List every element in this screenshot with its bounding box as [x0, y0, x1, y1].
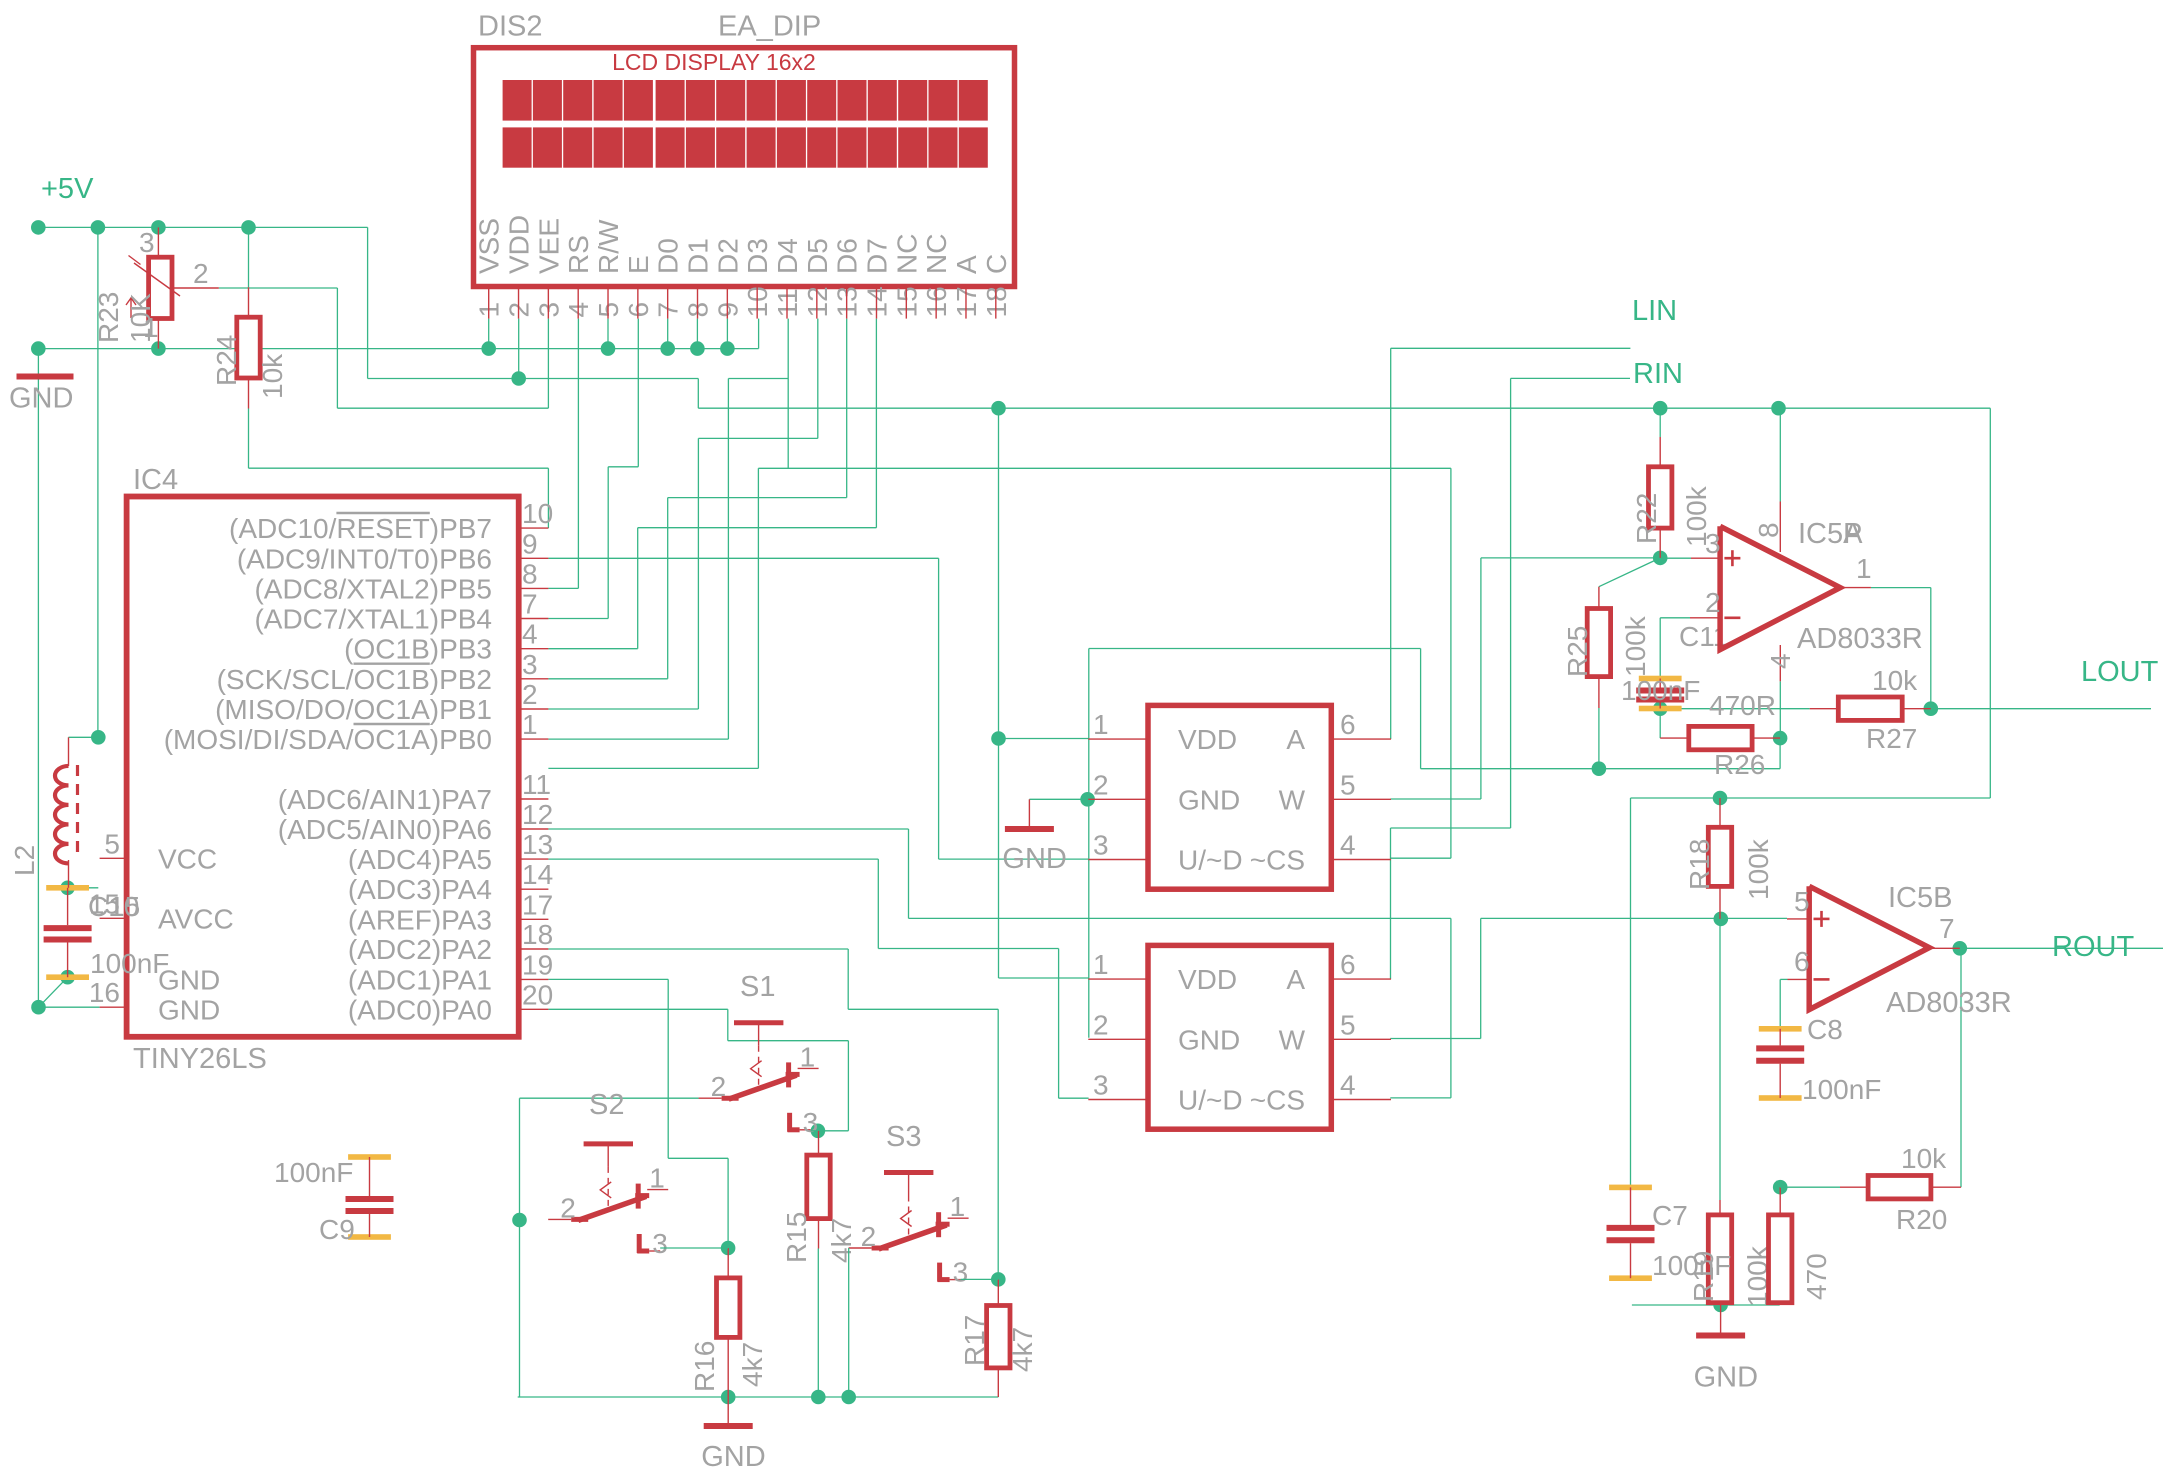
svg-text:1: 1 [143, 312, 159, 343]
svg-text:EA_DIP: EA_DIP [718, 11, 821, 43]
svg-text:LOUT: LOUT [2081, 656, 2159, 688]
svg-text:R/W: R/W [593, 219, 624, 274]
svg-text:VDD: VDD [1178, 964, 1237, 995]
svg-text:L2: L2 [9, 845, 40, 876]
svg-text:3: 3 [1705, 528, 1721, 559]
svg-text:(ADC9/INT0/T0)PB6: (ADC9/INT0/T0)PB6 [237, 543, 492, 574]
svg-text:GND: GND [158, 994, 220, 1025]
svg-text:3: 3 [652, 1228, 668, 1259]
svg-text:R25: R25 [1562, 626, 1593, 677]
svg-text:4k7: 4k7 [737, 1342, 768, 1387]
svg-text:C8: C8 [1807, 1014, 1843, 1045]
svg-text:18: 18 [522, 919, 553, 950]
svg-text:10k: 10k [257, 353, 288, 399]
svg-text:R22: R22 [1631, 493, 1662, 544]
svg-text:R23: R23 [93, 292, 124, 343]
svg-text:VSS: VSS [474, 218, 505, 274]
svg-text:(ADC2)PA2: (ADC2)PA2 [348, 934, 492, 965]
svg-text:9: 9 [522, 528, 538, 559]
svg-text:AD8033R: AD8033R [1886, 987, 2012, 1019]
svg-text:D3: D3 [742, 238, 773, 274]
svg-text:17: 17 [522, 889, 553, 920]
svg-text:470: 470 [1801, 1253, 1832, 1300]
svg-text:RIN: RIN [1633, 358, 1683, 390]
svg-text:6: 6 [1340, 709, 1356, 740]
svg-text:D6: D6 [832, 238, 863, 274]
svg-text:11: 11 [522, 769, 551, 800]
svg-text:R27: R27 [1866, 723, 1917, 754]
svg-text:S2: S2 [589, 1089, 624, 1121]
svg-text:C7: C7 [1652, 1200, 1688, 1231]
svg-text:R16: R16 [689, 1341, 720, 1392]
svg-text:ROUT: ROUT [2052, 931, 2134, 963]
svg-text:1: 1 [1856, 553, 1872, 584]
svg-text:(ADC4)PA5: (ADC4)PA5 [348, 844, 492, 875]
svg-text:A: A [1286, 964, 1305, 995]
svg-text:6: 6 [1794, 946, 1810, 977]
svg-text:470R: 470R [1709, 690, 1776, 721]
svg-text:(ADC7/XTAL1)PB4: (ADC7/XTAL1)PB4 [254, 604, 492, 635]
svg-text:A: A [951, 255, 982, 274]
svg-text:5: 5 [1340, 769, 1356, 800]
svg-text:19: 19 [522, 949, 553, 980]
svg-text:(MOSI/DI/SDA/OC1A)PB0: (MOSI/DI/SDA/OC1A)PB0 [164, 724, 492, 755]
svg-text:NC: NC [921, 234, 952, 274]
svg-text:2: 2 [861, 1221, 877, 1252]
svg-text:4k7: 4k7 [1007, 1327, 1038, 1372]
svg-text:E: E [623, 255, 654, 274]
svg-text:VCC: VCC [158, 843, 217, 874]
svg-text:3: 3 [522, 649, 538, 680]
svg-text:100nF: 100nF [1621, 675, 1700, 706]
svg-text:VEE: VEE [533, 218, 564, 274]
svg-text:7: 7 [1939, 913, 1955, 944]
svg-text:3: 3 [1093, 830, 1109, 861]
svg-text:1: 1 [950, 1191, 966, 1222]
svg-text:15: 15 [109, 891, 140, 922]
svg-text:D5: D5 [802, 238, 833, 274]
svg-text:~CS: ~CS [1250, 1085, 1305, 1116]
svg-text:U/~D: U/~D [1178, 845, 1243, 876]
svg-text:GND: GND [701, 1441, 765, 1468]
svg-text:8: 8 [522, 558, 538, 589]
svg-text:6: 6 [1340, 949, 1356, 980]
svg-text:R20: R20 [1896, 1204, 1947, 1235]
svg-text:D2: D2 [712, 238, 743, 274]
svg-text:P: P [1843, 518, 1862, 550]
svg-text:14: 14 [522, 859, 553, 890]
svg-text:IC5B: IC5B [1888, 882, 1952, 914]
svg-text:R24: R24 [211, 335, 242, 386]
svg-text:5: 5 [1794, 886, 1810, 917]
svg-text:D4: D4 [772, 238, 803, 274]
svg-text:10k: 10k [1901, 1143, 1947, 1174]
svg-text:3: 3 [953, 1257, 969, 1288]
svg-text:1: 1 [1093, 949, 1109, 980]
svg-text:VDD: VDD [504, 215, 535, 274]
svg-text:100k: 100k [1620, 615, 1651, 677]
svg-text:16: 16 [89, 977, 120, 1008]
svg-text:(ADC10/RESET)PB7: (ADC10/RESET)PB7 [229, 513, 492, 544]
svg-text:C: C [981, 254, 1012, 274]
svg-text:5: 5 [104, 828, 120, 859]
svg-text:(AREF)PA3: (AREF)PA3 [348, 904, 492, 935]
svg-text:R15: R15 [781, 1212, 812, 1263]
svg-text:D7: D7 [861, 238, 892, 274]
svg-text:2: 2 [711, 1071, 727, 1102]
svg-text:4k7: 4k7 [826, 1218, 857, 1263]
svg-text:S3: S3 [886, 1121, 921, 1153]
svg-text:(OC1B)PB3: (OC1B)PB3 [344, 634, 492, 665]
svg-text:R18: R18 [1684, 839, 1715, 890]
svg-text:4: 4 [522, 619, 538, 650]
svg-text:2: 2 [193, 258, 209, 289]
svg-text:D1: D1 [683, 238, 714, 274]
svg-text:C9: C9 [319, 1214, 355, 1245]
svg-text:(ADC1)PA1: (ADC1)PA1 [348, 964, 492, 995]
svg-text:1: 1 [649, 1163, 665, 1194]
svg-text:10k: 10k [1872, 665, 1918, 696]
svg-text:GND: GND [1178, 784, 1240, 815]
svg-text:+5V: +5V [41, 173, 94, 205]
svg-text:(ADC8/XTAL2)PB5: (ADC8/XTAL2)PB5 [254, 573, 492, 604]
svg-text:(ADC6/AIN1)PA7: (ADC6/AIN1)PA7 [278, 784, 492, 815]
svg-text:W: W [1279, 784, 1306, 815]
svg-text:GND: GND [9, 383, 73, 415]
svg-text:GND: GND [1178, 1024, 1240, 1055]
svg-text:R26: R26 [1714, 749, 1765, 780]
svg-text:1: 1 [1093, 709, 1109, 740]
svg-text:100k: 100k [1743, 838, 1774, 900]
svg-text:LIN: LIN [1632, 295, 1677, 327]
svg-text:7: 7 [522, 589, 538, 620]
svg-text:(ADC5/AIN0)PA6: (ADC5/AIN0)PA6 [278, 814, 492, 845]
svg-text:4: 4 [1340, 830, 1356, 861]
svg-text:W: W [1279, 1024, 1306, 1055]
svg-text:AD8033R: AD8033R [1797, 623, 1923, 655]
svg-text:A: A [1286, 724, 1305, 755]
svg-text:1: 1 [522, 709, 538, 740]
svg-text:R17: R17 [959, 1315, 990, 1366]
svg-text:100nF: 100nF [274, 1157, 353, 1188]
svg-text:4: 4 [1765, 653, 1796, 669]
svg-text:S1: S1 [740, 971, 775, 1003]
svg-text:100nF: 100nF [1802, 1074, 1881, 1105]
svg-text:AVCC: AVCC [158, 903, 234, 934]
svg-text:(MISO/DO/OC1A)PB1: (MISO/DO/OC1A)PB1 [215, 694, 492, 725]
svg-text:(SCK/SCL/OC1B)PB2: (SCK/SCL/OC1B)PB2 [217, 664, 492, 695]
svg-text:NC: NC [891, 234, 922, 274]
svg-text:U/~D: U/~D [1178, 1085, 1243, 1116]
svg-text:(ADC0)PA0: (ADC0)PA0 [348, 994, 492, 1025]
svg-text:2: 2 [1705, 587, 1721, 618]
svg-text:3: 3 [1093, 1070, 1109, 1101]
svg-text:5: 5 [1340, 1009, 1356, 1040]
svg-text:TINY26LS: TINY26LS [133, 1043, 267, 1075]
svg-text:3: 3 [803, 1107, 819, 1138]
svg-text:~CS: ~CS [1250, 845, 1305, 876]
svg-text:12: 12 [522, 799, 553, 830]
svg-text:RS: RS [563, 235, 594, 274]
svg-text:1: 1 [800, 1041, 816, 1072]
svg-text:2: 2 [1093, 769, 1109, 800]
svg-text:8: 8 [1753, 522, 1784, 538]
svg-text:D0: D0 [653, 238, 684, 274]
svg-text:2: 2 [1093, 1009, 1109, 1040]
svg-text:2: 2 [522, 679, 538, 710]
svg-text:20: 20 [522, 979, 553, 1010]
svg-text:2: 2 [560, 1192, 576, 1223]
svg-text:100nF: 100nF [90, 948, 169, 979]
svg-text:4: 4 [1340, 1070, 1356, 1101]
svg-text:DIS2: DIS2 [478, 11, 542, 43]
svg-text:GND: GND [1002, 843, 1066, 875]
svg-text:GND: GND [1694, 1362, 1758, 1394]
svg-text:LCD DISPLAY 16x2: LCD DISPLAY 16x2 [612, 49, 816, 75]
svg-text:IC4: IC4 [133, 464, 178, 496]
svg-text:3: 3 [139, 227, 155, 258]
svg-text:10: 10 [522, 498, 553, 529]
svg-text:(ADC3)PA4: (ADC3)PA4 [348, 874, 492, 905]
svg-text:13: 13 [522, 829, 553, 860]
svg-text:VDD: VDD [1178, 724, 1237, 755]
svg-text:100nF: 100nF [1652, 1250, 1731, 1281]
